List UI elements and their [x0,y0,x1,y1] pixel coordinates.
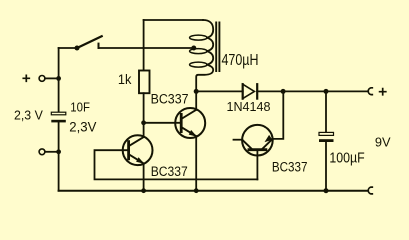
wire: Q2 base from dot [144,122,182,124]
node: + terminal circle (left top) [39,76,45,82]
transistor Q3 BC337 (right, rotated) [242,125,273,156]
wire: Q1 base left-down-right to Q3 base [95,150,258,179]
wire: Q3 base pin down [256,150,258,180]
svg-text:9V: 9V [375,135,391,150]
wire: Q3 collector stub left [234,139,243,141]
wire: bottom ground bus [59,190,367,192]
terminal: output - (arc) [368,187,372,194]
node: junction dot R1/Q1.C/Q2.B [141,120,146,125]
wire: top net (coil top to resistor top) [144,19,203,21]
core lines [216,23,219,72]
wire: Q3 emitter up to diode cathode net [273,91,284,138]
wire: Q1 collector up to dot [143,123,145,137]
node: bus dot under C2 [324,188,329,193]
wire: Q1 emitter down to bus [143,163,145,190]
wire: lower terminal to rail [45,151,59,153]
switch S1 [59,47,75,49]
svg-text:BC337: BC337 [272,160,308,176]
wire: switch to coil tap [99,47,194,49]
node: lower-left terminal circle [39,149,45,155]
svg-text:10F: 10F [70,99,90,114]
svg-text:1k: 1k [118,72,132,87]
node: coil tap dot [191,46,196,51]
resistor R1 1k [143,20,145,71]
svg-text:470µH: 470µH [222,52,259,69]
node: bus dot under Q1 [141,188,146,193]
node: dot Q3 emitter join [281,89,286,94]
label: + sign (right) [380,89,386,95]
svg-text:BC337: BC337 [151,92,189,108]
wire: + terminal to rail [45,77,59,79]
wire: diode cathode to output [257,90,367,92]
svg-text:2,3 V: 2,3 V [14,107,43,122]
wire: left vertical rail top (battery+) [58,48,60,112]
node: junction dot lower-left [56,149,61,154]
svg-text:1N4148: 1N4148 [227,99,271,114]
svg-text:BC337: BC337 [151,164,188,180]
wire: Q2 collector up to diode junction [195,91,197,109]
node: bus dot under Q2 [194,188,199,193]
terminal: output + (arc) [368,88,372,95]
transistor Q2 BC337 (middle top) [175,108,205,138]
diode D1 1N4148 [242,84,244,98]
wire: left vertical rail bottom [58,122,60,190]
wire: to diode [196,90,243,92]
svg-text:100µF: 100µF [329,151,365,167]
svg-text:2,3V: 2,3V [69,120,97,135]
capacitor C2 100µF [325,91,327,132]
wire: Q2 emitter down to bus [195,136,197,191]
capacitor C1 10F (supercap) plates [51,112,66,115]
node: dot C2 top join [324,89,329,94]
node: junction dot battery+ [56,76,61,81]
node: junction dot coil bottom / diode anode [194,89,199,94]
inductor L1 470µH coil [203,20,213,38]
label: + sign (left) [23,75,29,81]
transistor Q1 BC337 (bottom left) [123,135,153,165]
